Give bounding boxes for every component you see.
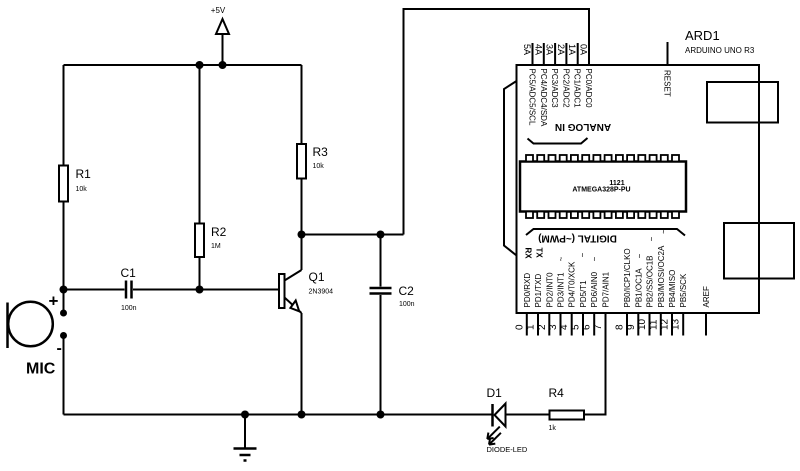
svg-text:PD0/RXD: PD0/RXD — [523, 273, 532, 308]
wire mic minus down — [63, 336, 65, 415]
svg-text:ARD1: ARD1 — [685, 28, 720, 43]
svg-text:PC2/ADC2: PC2/ADC2 — [561, 69, 570, 109]
pin A5 — [522, 43, 537, 126]
node mic minus — [60, 332, 67, 339]
wire bottom ground rail — [64, 414, 493, 416]
pin 7 PD7/AIN1 — [593, 271, 611, 335]
wire R2 top — [199, 65, 201, 224]
svg-text:PC0/ADC0: PC0/ADC0 — [584, 69, 593, 109]
svg-text:AREF: AREF — [702, 286, 711, 307]
svg-text:PB2/SS/OC1B: PB2/SS/OC1B — [646, 255, 655, 307]
node R1/C1 junction — [60, 286, 68, 294]
svg-text:R3: R3 — [313, 145, 329, 159]
pin 6 PD6/AIN0 — [582, 257, 600, 336]
wire mic+ to C1 — [64, 289, 125, 291]
pin 11 PB3/MOSI/OC2A — [648, 229, 667, 335]
power +5V — [211, 6, 229, 65]
ARD1 power connector rect — [724, 223, 794, 279]
svg-text:3: 3 — [548, 324, 559, 330]
svg-text:PC1/ADC1: PC1/ADC1 — [573, 69, 582, 109]
svg-text:~: ~ — [659, 229, 668, 234]
svg-text:~: ~ — [556, 257, 565, 262]
svg-text:ANALOG IN: ANALOG IN — [555, 121, 611, 132]
svg-text:+: + — [49, 292, 59, 311]
node C2 bottom junction — [377, 411, 385, 419]
pin A2 — [556, 43, 571, 108]
svg-text:R2: R2 — [211, 225, 227, 239]
svg-text:PB1/OC1A: PB1/OC1A — [634, 268, 643, 308]
svg-text:4A: 4A — [533, 44, 543, 55]
svg-text:10k: 10k — [76, 186, 88, 193]
svg-text:PD7/AIN1: PD7/AIN1 — [602, 271, 611, 307]
DIGITAL (~PWM) bracket — [526, 229, 685, 236]
capacitor C1 — [121, 266, 137, 312]
diode D1 DIODE-LED — [487, 386, 528, 454]
svg-text:5A: 5A — [522, 44, 532, 55]
wire R4 to pin 7 — [584, 313, 606, 415]
pin A0 — [579, 44, 594, 108]
pin 13 PB5/SCK — [671, 273, 689, 335]
svg-text:PD1/TXD: PD1/TXD — [534, 273, 543, 307]
svg-text:~: ~ — [635, 254, 644, 259]
pin 1 PD1/TXD — [526, 273, 544, 335]
transistor Q1 — [279, 270, 333, 313]
svg-text:C2: C2 — [399, 284, 415, 298]
svg-text:1k: 1k — [549, 425, 557, 432]
wire R3 top — [301, 65, 303, 144]
pin A3 — [545, 43, 560, 108]
svg-text:0A: 0A — [579, 44, 589, 55]
svg-text:1: 1 — [526, 324, 537, 330]
svg-text:RESET: RESET — [663, 70, 672, 97]
svg-text:PB4/MISO: PB4/MISO — [668, 270, 677, 308]
svg-text:PD4/T0/XCK: PD4/T0/XCK — [568, 261, 577, 307]
svg-text:PD2/INT0: PD2/INT0 — [545, 272, 554, 308]
svg-text:PB3/MOSI/OC2A: PB3/MOSI/OC2A — [657, 245, 666, 307]
wire A0 net riser and top run — [404, 9, 590, 235]
pin A1 — [567, 43, 582, 108]
capacitor C2 — [370, 284, 415, 308]
pin 3 PD3/INT1 — [548, 257, 566, 336]
svg-text:ARDUINO UNO R3: ARDUINO UNO R3 — [685, 46, 755, 55]
wire C2 bottom — [380, 295, 382, 415]
svg-text:0: 0 — [514, 324, 525, 330]
node C2 top junction — [377, 231, 385, 239]
svg-text:PC3/ADC3: PC3/ADC3 — [550, 69, 559, 109]
svg-text:PD5/T1: PD5/T1 — [579, 280, 588, 308]
wire R2 bottom — [199, 257, 201, 290]
IC pads top row — [526, 155, 679, 162]
node junction top rail right — [219, 61, 227, 69]
resistor R2 — [195, 224, 227, 258]
svg-text:100n: 100n — [121, 305, 137, 312]
node emitter junction — [298, 411, 306, 419]
svg-text:TX: TX — [535, 248, 544, 259]
svg-text:+5V: +5V — [211, 6, 226, 15]
pin 2 PD2/INT0 — [537, 272, 555, 336]
svg-text:5: 5 — [571, 324, 582, 330]
svg-text:PB5/SCK: PB5/SCK — [679, 273, 688, 307]
svg-text:10: 10 — [637, 318, 648, 330]
svg-text:12: 12 — [660, 318, 671, 330]
node mic plus — [60, 310, 67, 317]
wire R1 bottom — [63, 202, 65, 290]
svg-text:9: 9 — [626, 324, 637, 330]
ARD1 usb connector rect — [707, 82, 778, 123]
wire mic plus terminal — [63, 290, 65, 314]
svg-text:1M: 1M — [211, 243, 221, 250]
svg-text:DIODE-LED: DIODE-LED — [487, 445, 528, 454]
svg-text:PB0/ICP1/CLKO: PB0/ICP1/CLKO — [623, 248, 632, 307]
svg-text:PC4/ADC4/SDA: PC4/ADC4/SDA — [539, 69, 548, 127]
svg-text:6: 6 — [582, 324, 593, 330]
svg-text:PD6/AIN0: PD6/AIN0 — [590, 271, 599, 307]
svg-text:RX: RX — [523, 248, 532, 260]
svg-text:1A: 1A — [567, 44, 577, 55]
svg-text:2A: 2A — [556, 44, 566, 55]
pin 0 PD0/RXD — [514, 273, 532, 336]
svg-text:10k: 10k — [313, 163, 325, 170]
svg-text:PC5/ADC5/SCL: PC5/ADC5/SCL — [528, 69, 537, 126]
svg-text:-: - — [57, 340, 62, 357]
svg-text:2: 2 — [537, 324, 548, 330]
node junction top rail left — [196, 61, 204, 69]
svg-text:4: 4 — [559, 324, 570, 330]
microphone MIC — [8, 292, 62, 378]
svg-text:MIC: MIC — [26, 361, 56, 378]
Arduino ARD1 body — [517, 28, 760, 313]
node collector junction — [298, 231, 306, 239]
pin 5 PD5/T1 — [571, 253, 589, 336]
pin AREF — [702, 286, 711, 335]
wire D1 to R4 — [506, 414, 550, 416]
ANALOG IN bracket — [528, 138, 588, 144]
wire R1 top — [63, 65, 65, 166]
resistor R3 — [297, 144, 328, 179]
wire C1 to Q1 base — [133, 289, 279, 291]
IC pads bottom row — [526, 212, 679, 219]
node ground junction — [241, 411, 249, 419]
svg-text:R4: R4 — [549, 386, 565, 400]
svg-text:ATMEGA328P-PU: ATMEGA328P-PU — [572, 187, 630, 194]
resistor R1 — [59, 166, 91, 202]
svg-text:7: 7 — [593, 324, 604, 330]
wire top +5V rail — [64, 64, 302, 66]
svg-text:3A: 3A — [545, 44, 555, 55]
svg-text:~: ~ — [647, 237, 656, 242]
wire collector node to A0 riser — [302, 234, 404, 236]
svg-text:11: 11 — [648, 319, 659, 330]
svg-text:DIGITAL (~PWM): DIGITAL (~PWM) — [538, 233, 617, 244]
ground — [234, 415, 257, 461]
pin 10 PB2/SS/OC1B — [637, 237, 656, 336]
svg-text:8: 8 — [615, 324, 626, 330]
node base junction — [196, 286, 204, 294]
wire C2 top — [380, 235, 382, 287]
svg-text:100n: 100n — [399, 301, 415, 308]
svg-text:R1: R1 — [76, 167, 92, 181]
svg-text:C1: C1 — [121, 266, 137, 280]
wire R3 bottom — [301, 179, 303, 235]
wire Q1 collector — [301, 235, 303, 271]
pin 12 PB4/MISO — [660, 270, 678, 336]
pin RESET — [663, 42, 672, 97]
pin A4 — [533, 43, 548, 127]
svg-text:Q1: Q1 — [309, 270, 325, 284]
svg-text:~: ~ — [578, 253, 587, 258]
pin 9 PB1/OC1A — [626, 254, 644, 336]
pin 8 PB0/ICP1/CLKO — [615, 248, 633, 335]
resistor R4 — [549, 386, 585, 432]
svg-text:PD3/INT1: PD3/INT1 — [557, 272, 566, 308]
IC U1 ATMEGA328P-PU body — [520, 162, 686, 212]
svg-text:2N3904: 2N3904 — [309, 289, 334, 296]
pin 4 PD4/T0/XCK — [559, 261, 577, 335]
wire Q1 emitter — [301, 313, 303, 415]
svg-text:~: ~ — [590, 257, 599, 262]
svg-text:13: 13 — [671, 318, 682, 330]
ARD1 left edge bracket — [504, 81, 517, 256]
svg-text:D1: D1 — [487, 386, 503, 400]
